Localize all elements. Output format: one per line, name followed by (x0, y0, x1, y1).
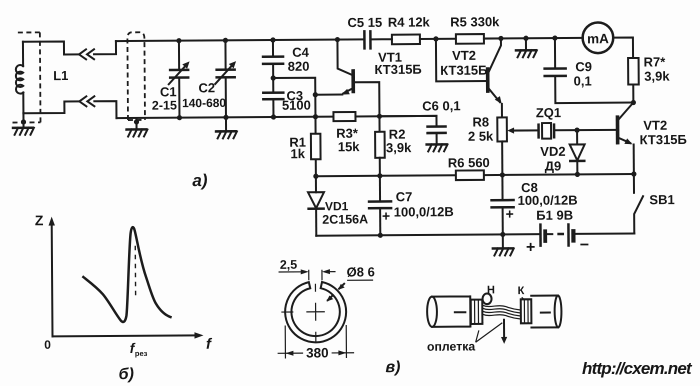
svg-text:Ø8 6: Ø8 6 (347, 264, 375, 279)
svg-text:3,9k: 3,9k (644, 69, 670, 84)
svg-text:б): б) (119, 366, 134, 383)
svg-text:+: + (382, 208, 390, 224)
svg-text:5100: 5100 (282, 98, 311, 113)
transistor VT2 KT315B (output) (616, 117, 620, 142)
capacitor C5 15 (364, 31, 370, 48)
graph b): resonance dashed line (134, 246, 136, 297)
resistor R1 1k (314, 117, 316, 176)
svg-text:C5 15: C5 15 (347, 15, 382, 30)
svg-text:2 5k: 2 5k (468, 129, 494, 144)
capacitor C2 (variable 140-680) (224, 40, 227, 117)
svg-text:R7*: R7* (643, 54, 666, 69)
resistor R5 330k (456, 34, 484, 44)
capacitor C9 0,1 (554, 38, 556, 67)
svg-text:Б1 9В: Б1 9В (536, 208, 573, 223)
graph b): impedance curve (83, 227, 170, 322)
ground under C2 (225, 117, 227, 131)
svg-text:2,5: 2,5 (280, 258, 298, 272)
svg-text:C6 0,1: C6 0,1 (422, 98, 460, 113)
capacitor C4 820 (272, 40, 274, 91)
ground under C6 (427, 144, 448, 151)
chevron arrows bottom (79, 96, 94, 106)
wire: middle rail with R6 (316, 174, 634, 176)
svg-text:380: 380 (306, 345, 329, 360)
wiper arrow into R8 from ZQ1 (507, 127, 514, 133)
svg-text:−: − (580, 237, 589, 254)
wire R4/R5 junction down to VT2 base (436, 39, 488, 82)
ground under C8 (502, 234, 504, 248)
svg-text:C1: C1 (160, 84, 177, 99)
diode VD2 D9 (576, 130, 578, 144)
cable splice: right cable body (555, 296, 562, 328)
inductor L1 (22, 42, 24, 66)
shield box (dashed) around L1 (12, 32, 41, 122)
svg-text:Z: Z (35, 212, 44, 228)
switch SB1 (633, 174, 635, 193)
dimension 380 (outer diameter) (285, 325, 346, 358)
svg-text:+: + (505, 206, 513, 222)
svg-text:100,0/12В: 100,0/12В (518, 193, 578, 208)
svg-text:C7: C7 (396, 189, 413, 204)
svg-text:C9: C9 (575, 59, 592, 74)
ground at cable shield (135, 118, 137, 129)
wire: bottom rail (316, 234, 540, 236)
svg-text:C2: C2 (198, 80, 215, 95)
braid pigtail loop N (483, 294, 492, 305)
chevron arrows top (79, 49, 94, 59)
svg-text:15k: 15k (338, 139, 361, 154)
wire node R2/R3 to C6 (379, 116, 436, 126)
svg-text:R4 12k: R4 12k (388, 14, 431, 29)
ring drawing v): split ring (285, 282, 346, 343)
milliammeter PA mA (583, 22, 614, 53)
svg-text:а): а) (192, 171, 208, 190)
cable splice: right braid section (521, 299, 532, 323)
svg-text:оплетка: оплетка (427, 339, 476, 353)
svg-text:VT2: VT2 (643, 118, 667, 133)
shield (dashed) at cable entry (127, 32, 145, 120)
battery B1 9V (539, 225, 542, 246)
svg-text:3,9k: 3,9k (386, 140, 412, 155)
wire: top rail (116, 39, 363, 41)
svg-text:КТ315Б: КТ315Б (440, 63, 487, 78)
resistor R3* 15k (in rail) (333, 112, 355, 121)
down arrow (tap) (503, 320, 505, 339)
svg-text:КТ315Б: КТ315Б (640, 132, 687, 147)
svg-text:2С156А: 2С156А (322, 212, 368, 226)
cable splice: left cable body (427, 297, 437, 327)
resistor R4 12k (392, 35, 420, 45)
svg-text:рез: рез (135, 349, 148, 358)
quartz ZQ1 (539, 125, 555, 138)
svg-text:VT2: VT2 (452, 48, 476, 63)
svg-text:http://cxem.net: http://cxem.net (582, 359, 693, 378)
capacitor C3 5100 (263, 93, 283, 100)
svg-text:820: 820 (288, 59, 310, 74)
graph b): f axis (52, 335, 196, 336)
svg-text:1k: 1k (290, 146, 305, 161)
svg-text:в): в) (385, 359, 400, 376)
node wire C4/C3 tap to emitter column (273, 78, 315, 117)
wire: upper-left bottom rail (116, 117, 333, 119)
svg-text:C4: C4 (292, 45, 309, 60)
svg-text:R8: R8 (472, 114, 489, 129)
svg-text:R5 330k: R5 330k (450, 14, 500, 29)
transistor VT1 KT315B (351, 71, 355, 91)
svg-text:0: 0 (44, 338, 51, 352)
wire meter to R7 (613, 38, 633, 59)
resistor R7* 3,9k (628, 58, 639, 85)
svg-text:Д9: Д9 (545, 158, 562, 173)
svg-text:mA: mA (587, 31, 609, 46)
svg-text:2-15: 2-15 (152, 98, 177, 112)
svg-text:SB1: SB1 (649, 192, 674, 207)
capacitor C8 100,0/12V (501, 175, 503, 200)
transistor VT2 KT315B (oscillator) (486, 69, 490, 91)
ground under L1 (22, 113, 24, 127)
svg-text:Н: Н (487, 284, 495, 296)
wire top link L1 to line (23, 41, 79, 54)
ground on top rail (525, 38, 527, 50)
dimension 2,5 (gap) (309, 270, 322, 281)
capacitor C6 0,1 (428, 127, 446, 134)
graph b): Z axis (51, 224, 54, 336)
svg-text:+: + (526, 239, 535, 256)
capacitor C1 (variable 2-15) (178, 41, 181, 118)
svg-text:100,0/12В: 100,0/12В (394, 204, 454, 219)
wire top link to rail (94, 41, 116, 54)
svg-text:f: f (206, 336, 213, 353)
ring center cross (281, 303, 325, 342)
capacitor C7 100,0/12V (379, 176, 381, 201)
svg-text:КТ315Б: КТ315Б (374, 62, 421, 77)
svg-text:К: К (518, 285, 525, 297)
resistor R8 2,5k (trimmer) (497, 117, 507, 141)
resistor R6 560 (456, 170, 484, 180)
resistor R2 3,9k (375, 132, 385, 158)
wire bottom link L1 (23, 101, 79, 113)
svg-text:L1: L1 (53, 68, 68, 83)
center wires bundle (483, 305, 521, 319)
svg-text:140-680: 140-680 (182, 96, 226, 110)
svg-text:VD1: VD1 (325, 199, 349, 213)
svg-text:ZQ1: ZQ1 (536, 105, 561, 120)
svg-text:R6 560: R6 560 (448, 155, 490, 170)
diode VD1 2S156A (315, 176, 317, 192)
wire bottom link to rail (94, 101, 116, 118)
cable splice: left braid section (471, 300, 483, 324)
svg-text:0,1: 0,1 (574, 73, 592, 88)
svg-text:VD2: VD2 (540, 144, 565, 159)
